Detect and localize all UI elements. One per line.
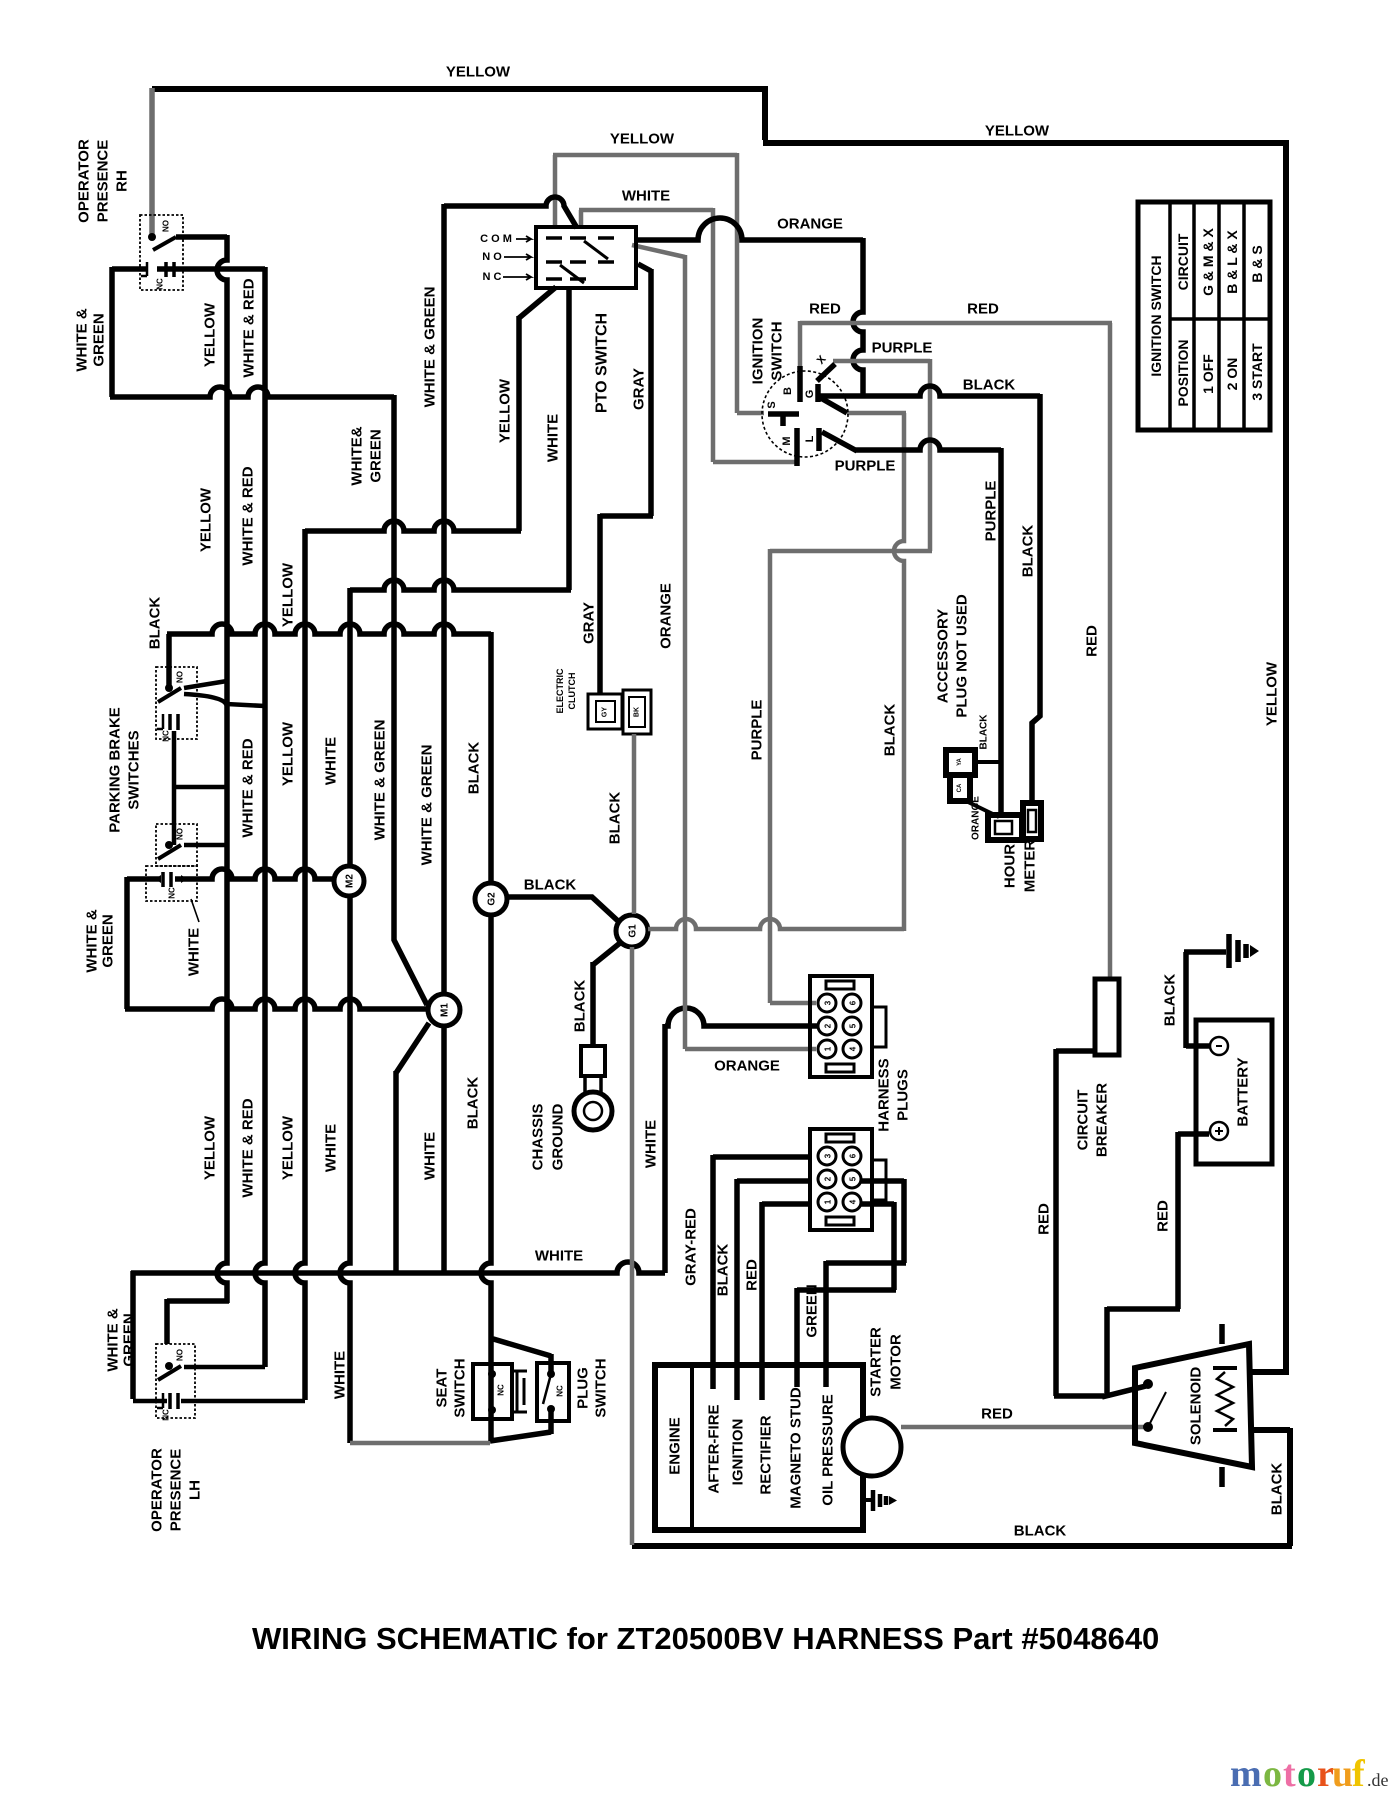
svg-text:6: 6 xyxy=(849,1000,858,1005)
wire BLACK clutch to G1 (gray) xyxy=(632,734,637,914)
svg-text:BLACK: BLACK xyxy=(979,714,990,750)
ignition pin B xyxy=(797,366,803,402)
svg-text:YELLOW: YELLOW xyxy=(280,721,297,786)
engine stub OIL xyxy=(823,1365,829,1387)
svg-text:G: G xyxy=(804,390,816,399)
svg-text:NC: NC xyxy=(162,1409,171,1421)
svg-text:PURPLE: PURPLE xyxy=(749,700,766,761)
svg-text:GREEN: GREEN xyxy=(100,914,117,967)
svg-text:BLACK: BLACK xyxy=(963,377,1016,394)
svg-text:WHITE: WHITE xyxy=(535,1248,583,1265)
svg-text:GRAY: GRAY xyxy=(581,602,598,644)
svg-text:m: m xyxy=(1230,1753,1262,1795)
wire OP LH blade output xyxy=(184,1365,265,1370)
wire PB1 NC to PB2 xyxy=(172,731,227,845)
wire accessory plug to hour meter xyxy=(966,801,999,817)
wire WHITE bus below M1 to white row xyxy=(441,1028,447,1271)
svg-text:NO: NO xyxy=(176,1349,185,1361)
component ignition switch circle xyxy=(762,371,848,457)
engine stub IGNITION xyxy=(734,1365,740,1400)
svg-text:HOUR: HOUR xyxy=(1002,844,1019,888)
svg-text:PRESENCE: PRESENCE xyxy=(95,140,112,223)
svg-text:WHITE & RED: WHITE & RED xyxy=(240,1098,257,1197)
wire PURPLE ignition X to harness plug (gray) xyxy=(770,359,932,1003)
engine stub RECTIFIER xyxy=(759,1365,765,1400)
svg-text:WHITE: WHITE xyxy=(323,737,340,785)
svg-text:MAGNETO STUD: MAGNETO STUD xyxy=(788,1387,805,1509)
wire WHITE row bottom xyxy=(131,1262,665,1399)
svg-text:PURPLE: PURPLE xyxy=(835,458,896,475)
PTO pins xyxy=(546,238,614,279)
svg-text:BLACK: BLACK xyxy=(572,980,589,1033)
solenoid contacts xyxy=(1143,1379,1153,1389)
svg-text:YELLOW: YELLOW xyxy=(280,1115,297,1180)
svg-text:YELLOW: YELLOW xyxy=(985,123,1050,140)
wire M1 row xyxy=(125,999,428,1009)
svg-text:o: o xyxy=(1297,1753,1316,1795)
svg-text:BLACK: BLACK xyxy=(466,742,483,795)
wire PB2 blade output xyxy=(184,843,227,848)
wire BLACK bus to seat and plug switches xyxy=(481,915,551,1441)
wire PURPLE ignition L to hour meter xyxy=(822,432,1001,814)
svg-text:BLACK: BLACK xyxy=(1014,1523,1067,1540)
svg-text:BLACK: BLACK xyxy=(1269,1463,1286,1516)
wire WHITE PTO to ignition M pin (gray) xyxy=(579,208,795,462)
svg-text:BLACK: BLACK xyxy=(715,1244,732,1297)
wire BLACK G1 down to bottom run (gray) xyxy=(630,947,635,1545)
component ignition switch position table xyxy=(1138,202,1270,430)
svg-text:BREAKER: BREAKER xyxy=(1094,1083,1111,1157)
component operator presence RH switch xyxy=(140,215,183,290)
wire OP LH NC row xyxy=(133,1399,305,1404)
node M1 xyxy=(428,994,460,1026)
svg-text:OIL PRESSURE: OIL PRESSURE xyxy=(820,1394,837,1505)
svg-text:SWITCH: SWITCH xyxy=(452,1358,469,1417)
svg-text:BATTERY: BATTERY xyxy=(1235,1057,1252,1126)
svg-text:STARTER: STARTER xyxy=(868,1327,885,1397)
svg-text:RED: RED xyxy=(1036,1203,1053,1235)
svg-text:NO: NO xyxy=(176,671,185,683)
svg-text:BLACK: BLACK xyxy=(882,704,899,757)
component electric clutch connector xyxy=(588,694,622,729)
wire BLACK plug to ignition stub xyxy=(737,1179,812,1365)
wire RED starter to solenoid (gray) xyxy=(901,1425,1145,1430)
svg-text:YELLOW: YELLOW xyxy=(497,378,514,443)
svg-text:B: B xyxy=(782,387,794,395)
svg-text:PARKING BRAKE: PARKING BRAKE xyxy=(107,707,124,833)
svg-text:3: 3 xyxy=(824,1153,833,1158)
wire BLACK solenoid bottom run xyxy=(632,1428,1292,1546)
svg-text:YELLOW: YELLOW xyxy=(198,487,215,552)
node G2 xyxy=(475,883,507,915)
svg-text:u: u xyxy=(1332,1753,1353,1795)
svg-text:CIRCUIT: CIRCUIT xyxy=(1175,233,1191,290)
wire RED plug to rectifier xyxy=(762,1202,812,1365)
component harness plug 1 xyxy=(810,976,872,1077)
svg-text:PLUG: PLUG xyxy=(575,1367,592,1409)
svg-text:BLACK: BLACK xyxy=(524,877,577,894)
svg-text:WIRING SCHEMATIC for ZT20500BV: WIRING SCHEMATIC for ZT20500BV HARNESS P… xyxy=(252,1621,1159,1656)
svg-text:BK: BK xyxy=(634,707,641,717)
svg-text:5: 5 xyxy=(849,1176,858,1181)
svg-text:6: 6 xyxy=(849,1153,858,1158)
svg-text:5: 5 xyxy=(849,1023,858,1028)
svg-text:SWITCH: SWITCH xyxy=(769,321,786,380)
wire BLACK battery to ground xyxy=(1184,952,1226,1048)
svg-text:M1: M1 xyxy=(440,1003,451,1017)
svg-text:t: t xyxy=(1283,1753,1296,1795)
svg-text:PLUGS: PLUGS xyxy=(895,1069,912,1121)
svg-text:PURPLE: PURPLE xyxy=(983,481,1000,542)
node M2 xyxy=(334,866,364,896)
wire WHITE to seat switch (gray) xyxy=(350,1441,490,1446)
svg-text:WHITE: WHITE xyxy=(323,1124,340,1172)
motoruf logo xyxy=(1230,1753,1389,1795)
component parking brake switch 2 xyxy=(156,824,197,866)
svg-text:ORANGE: ORANGE xyxy=(658,583,675,649)
wire GREEN plug to oil pressure xyxy=(826,1179,906,1365)
svg-text:WHITE&: WHITE& xyxy=(349,426,366,485)
svg-text:WHITE: WHITE xyxy=(186,928,203,976)
svg-text:BLACK: BLACK xyxy=(607,792,624,845)
solenoid coil resistor xyxy=(1213,1368,1237,1430)
wire GRAY-RED plug to after-fire xyxy=(713,1155,812,1365)
svg-text:ACCESSORY: ACCESSORY xyxy=(935,609,952,703)
svg-text:YELLOW: YELLOW xyxy=(280,562,297,627)
wire GRAY PTO to electric clutch xyxy=(600,264,653,694)
ground symbol battery xyxy=(1229,934,1246,968)
component hour meter connectors xyxy=(988,815,1022,840)
svg-text:NO: NO xyxy=(162,220,171,232)
wire BLACK parking brake to G2 xyxy=(167,624,491,884)
svg-text:.de: .de xyxy=(1367,1770,1389,1790)
svg-text:NC: NC xyxy=(556,1385,565,1397)
svg-text:NC: NC xyxy=(162,730,171,742)
svg-text:YELLOW: YELLOW xyxy=(610,131,675,148)
wire WHITE harness plug to white row xyxy=(665,1008,818,1273)
wire RED ignition B to circuit breaker (gray) xyxy=(800,321,1112,977)
svg-text:GREEN: GREEN xyxy=(368,429,385,482)
wire BLACK G1 to chassis ground xyxy=(593,943,620,1046)
svg-text:WHITE: WHITE xyxy=(643,1120,660,1168)
wire left vertical to M1 row xyxy=(124,877,130,1009)
svg-text:S: S xyxy=(766,401,778,408)
svg-text:GY: GY xyxy=(602,707,609,717)
svg-text:METER: METER xyxy=(1022,840,1039,893)
component battery xyxy=(1196,1020,1272,1164)
component parking brake switch 1 xyxy=(156,667,197,739)
svg-text:RH: RH xyxy=(114,170,131,192)
wire BLACK G1 to ignition blade (gray) xyxy=(648,413,906,931)
svg-text:YELLOW: YELLOW xyxy=(1264,661,1281,726)
svg-text:BLACK: BLACK xyxy=(465,1077,482,1130)
svg-text:RED: RED xyxy=(1155,1200,1172,1232)
svg-text:WHITE & RED: WHITE & RED xyxy=(241,278,258,377)
wire YELLOW PTO to ignition S pin (gray) xyxy=(553,153,764,413)
component starter motor xyxy=(843,1418,901,1476)
svg-text:G & M & X: G & M & X xyxy=(1200,228,1216,296)
svg-text:PTO SWITCH: PTO SWITCH xyxy=(594,313,611,413)
wire WHITE bus from PTO switch xyxy=(340,286,571,1443)
svg-text:RED: RED xyxy=(809,301,841,318)
wire YELLOW bus 2 from PTO switch xyxy=(295,287,556,1400)
svg-text:WHITE &: WHITE & xyxy=(84,909,101,972)
svg-text:BLACK: BLACK xyxy=(1162,974,1179,1027)
svg-text:WHITE: WHITE xyxy=(422,1132,439,1180)
wire PB1 blade outputs xyxy=(184,681,265,706)
svg-text:PURPLE: PURPLE xyxy=(872,340,933,357)
wire RED battery to solenoid xyxy=(1107,1132,1209,1398)
svg-text:G2: G2 xyxy=(487,892,498,906)
svg-text:2: 2 xyxy=(824,1176,833,1181)
svg-text:GRAY: GRAY xyxy=(631,368,648,410)
svg-text:WHITE & RED: WHITE & RED xyxy=(240,738,257,837)
svg-text:L: L xyxy=(804,435,816,442)
svg-text:RED: RED xyxy=(744,1259,761,1291)
component seat switch xyxy=(473,1364,512,1419)
svg-text:o: o xyxy=(1263,1753,1282,1795)
svg-text:B & L & X: B & L & X xyxy=(1224,230,1240,294)
svg-text:WHITE &: WHITE & xyxy=(105,1308,122,1371)
wire BLACK ignition G to hour meter xyxy=(820,386,1040,803)
svg-text:1: 1 xyxy=(824,1046,833,1051)
svg-text:4: 4 xyxy=(849,1199,858,1204)
ignition pin L xyxy=(816,428,822,451)
component chassis ground ring terminal xyxy=(581,1046,605,1076)
wire BLACK G2 to G1 xyxy=(507,897,618,921)
svg-text:HARNESS: HARNESS xyxy=(876,1058,893,1131)
wire RED breaker to solenoid xyxy=(1054,1049,1146,1397)
component parking brake switch 3 xyxy=(146,866,197,901)
ignition pin X xyxy=(817,364,835,381)
svg-text:YELLOW: YELLOW xyxy=(202,1115,219,1180)
svg-text:GROUND: GROUND xyxy=(550,1104,567,1171)
ignition pin G xyxy=(818,384,847,413)
wire YELLOW main top and right side run xyxy=(152,86,1289,1372)
engine stub MAGNETO xyxy=(794,1365,800,1387)
component accessory plug connectors xyxy=(946,750,975,775)
wire WHITE & RED bus xyxy=(157,267,265,1367)
svg-text:POSITION: POSITION xyxy=(1175,340,1191,407)
component PTO switch box xyxy=(536,227,636,288)
svg-text:GREEN: GREEN xyxy=(91,313,108,366)
wire WHITE & GREEN bus (PTO to M1) xyxy=(444,197,577,992)
svg-text:WHITE & GREEN: WHITE & GREEN xyxy=(372,720,389,841)
svg-text:RED: RED xyxy=(1084,625,1101,657)
wire YELLOW bus left (operator presence RH blade to LH) xyxy=(167,235,229,1344)
svg-text:M2: M2 xyxy=(345,874,356,888)
wire solenoid coil to yellow xyxy=(1249,1369,1289,1375)
svg-text:f: f xyxy=(1352,1753,1366,1795)
component harness plug 2 xyxy=(810,1129,872,1230)
svg-text:WHITE & RED: WHITE & RED xyxy=(240,466,257,565)
wire YELLOW drop to operator presence RH (gray) xyxy=(149,88,155,234)
svg-text:NC: NC xyxy=(156,278,165,290)
svg-text:NC: NC xyxy=(168,887,177,899)
svg-text:WHITE & GREEN: WHITE & GREEN xyxy=(422,287,439,408)
ignition pin M xyxy=(794,428,800,466)
svg-text:2 ON: 2 ON xyxy=(1224,358,1240,391)
svg-text:IGNITION: IGNITION xyxy=(730,1419,747,1486)
wire WHITE & GREEN from operator presence RH xyxy=(110,267,429,1271)
svg-text:SEAT: SEAT xyxy=(434,1369,451,1408)
svg-text:ENGINE: ENGINE xyxy=(667,1417,684,1475)
component circuit breaker xyxy=(1095,979,1119,1055)
component solenoid xyxy=(1135,1344,1252,1467)
svg-text:CHASSIS: CHASSIS xyxy=(530,1104,547,1171)
svg-text:IGNITION SWITCH: IGNITION SWITCH xyxy=(1148,255,1164,376)
svg-text:MOTOR: MOTOR xyxy=(888,1334,905,1390)
component engine box xyxy=(655,1365,863,1530)
svg-text:1 OFF: 1 OFF xyxy=(1200,354,1216,394)
svg-text:BLACK: BLACK xyxy=(1020,525,1037,578)
svg-text:2: 2 xyxy=(824,1023,833,1028)
svg-text:G1: G1 xyxy=(628,924,639,938)
svg-text:IGNITION: IGNITION xyxy=(750,318,767,385)
svg-text:GREEN: GREEN xyxy=(804,1284,821,1337)
svg-text:NO: NO xyxy=(176,828,185,840)
svg-text:C O M: C O M xyxy=(480,233,512,245)
svg-text:ORANGE: ORANGE xyxy=(777,216,843,233)
wire accessory plug to purple xyxy=(975,760,1001,764)
svg-text:WHITE: WHITE xyxy=(622,188,670,205)
svg-text:RED: RED xyxy=(981,1406,1013,1423)
svg-text:RECTIFIER: RECTIFIER xyxy=(758,1415,775,1494)
svg-text:4: 4 xyxy=(849,1046,858,1051)
svg-text:WHITE: WHITE xyxy=(545,414,562,462)
svg-text:B & S: B & S xyxy=(1249,245,1265,282)
svg-text:N C: N C xyxy=(483,271,502,283)
engine stub AFTER-FIRE xyxy=(710,1365,716,1389)
svg-text:SWITCHES: SWITCHES xyxy=(126,730,143,809)
svg-text:WHITE & GREEN: WHITE & GREEN xyxy=(419,745,436,866)
wire PB3 row and M2 xyxy=(127,869,334,879)
svg-text:PLUG NOT USED: PLUG NOT USED xyxy=(954,594,971,718)
svg-text:GREEN: GREEN xyxy=(121,1313,138,1366)
wire plug to magneto stud xyxy=(797,1202,896,1365)
svg-text:OPERATOR: OPERATOR xyxy=(149,1448,166,1532)
svg-text:BLACK: BLACK xyxy=(147,597,164,650)
svg-text:WHITE: WHITE xyxy=(332,1351,349,1399)
wire ORANGE PTO to ignition B area xyxy=(636,218,863,398)
svg-text:3 START: 3 START xyxy=(1249,343,1265,401)
svg-text:N O: N O xyxy=(482,251,502,263)
wire ORANGE PTO to harness plug (gray) xyxy=(632,245,816,1049)
svg-text:SWITCH: SWITCH xyxy=(593,1358,610,1417)
svg-text:M: M xyxy=(781,436,793,445)
battery terminal positive xyxy=(1210,1122,1228,1140)
node G1 xyxy=(616,915,648,947)
svg-text:YELLOW: YELLOW xyxy=(202,302,219,367)
svg-text:PRESENCE: PRESENCE xyxy=(168,1449,185,1532)
battery terminal negative xyxy=(1210,1037,1228,1055)
svg-text:CA: CA xyxy=(957,783,963,792)
svg-text:LH: LH xyxy=(187,1480,204,1500)
svg-text:3: 3 xyxy=(824,1000,833,1005)
svg-text:CLUTCH: CLUTCH xyxy=(567,673,577,710)
ignition pin S xyxy=(768,414,799,426)
svg-text:ELECTRIC: ELECTRIC xyxy=(555,668,565,714)
svg-text:OPERATOR: OPERATOR xyxy=(76,139,93,223)
svg-text:CIRCUIT: CIRCUIT xyxy=(1075,1090,1092,1151)
svg-text:ORANGE: ORANGE xyxy=(714,1058,780,1075)
svg-text:NC: NC xyxy=(497,1384,506,1396)
svg-text:RED: RED xyxy=(967,301,999,318)
svg-text:YA: YA xyxy=(957,757,963,765)
svg-text:1: 1 xyxy=(824,1199,833,1204)
ground symbol starter xyxy=(863,1498,871,1502)
svg-text:WHITE &: WHITE & xyxy=(74,308,91,371)
svg-text:YELLOW: YELLOW xyxy=(446,64,511,81)
component plug switch xyxy=(537,1363,569,1421)
svg-text:SOLENOID: SOLENOID xyxy=(1188,1367,1205,1446)
svg-text:GRAY-RED: GRAY-RED xyxy=(683,1208,700,1286)
component operator presence LH switch xyxy=(156,1344,195,1418)
svg-text:AFTER-FIRE: AFTER-FIRE xyxy=(706,1404,723,1493)
